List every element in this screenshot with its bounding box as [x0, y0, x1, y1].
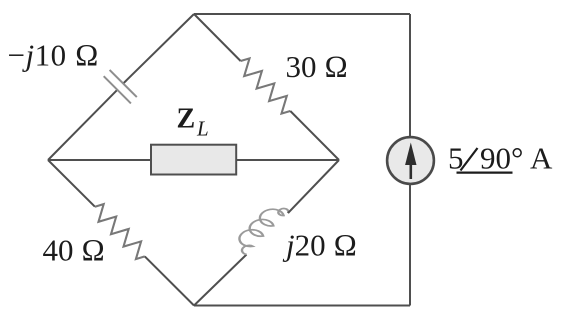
current source arrow: [409, 163, 412, 179]
impedance box ZL: [151, 145, 236, 175]
svg-text:Z: Z: [177, 104, 196, 135]
wire: top-left branch, top vertex to capacitor plate A: [123, 14, 194, 84]
inductor j20 ohm coil: [229, 203, 290, 255]
svg-text:A: A: [530, 141, 553, 176]
wire: top vertex to top-right corner: [194, 13, 410, 15]
angle symbol of 5/90 A: [457, 148, 513, 173]
svg-text:90°: 90°: [480, 141, 523, 176]
resistor 40 ohm zigzag: [95, 204, 145, 259]
svg-text:−j10 Ω: −j10 Ω: [8, 38, 100, 73]
capacitor C (-j10 ohm) plates: [104, 70, 137, 104]
wire: top-right corner down to current source: [409, 14, 411, 137]
wire: resistor 30 end to right vertex: [290, 111, 339, 160]
wire: inductor end to right vertex: [288, 160, 339, 213]
wire: left vertex to resistor 40 start: [48, 160, 95, 207]
wire: resistor 40 end to bottom vertex: [145, 256, 194, 305]
current source I1 circle: [387, 137, 434, 184]
svg-text:30 Ω: 30 Ω: [286, 49, 349, 84]
resistor 30 ohm zigzag: [241, 58, 291, 113]
wire: ZL box to right vertex: [236, 159, 339, 161]
wire: left vertex to ZL box: [48, 159, 151, 161]
svg-text:40 Ω: 40 Ω: [43, 233, 106, 268]
wire: left vertex to capacitor plate B: [48, 90, 117, 160]
wire: bottom-right corner to bottom vertex: [194, 305, 410, 307]
svg-text:j20 Ω: j20 Ω: [282, 227, 357, 262]
wire: top vertex to resistor 30 start: [194, 14, 241, 61]
wire: bottom vertex to inductor start: [194, 255, 247, 306]
svg-text:L: L: [196, 117, 209, 141]
wire: current source to bottom-right corner: [409, 185, 411, 306]
